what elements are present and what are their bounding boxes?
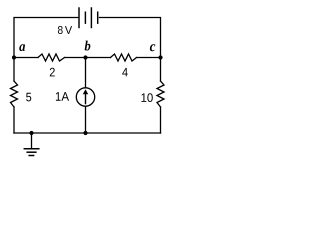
junction dot current source bottom bbox=[83, 131, 87, 135]
label 10 bbox=[141, 93, 152, 102]
current source I1 arrow bbox=[83, 89, 88, 104]
resistor 5ohm left branch bbox=[11, 81, 18, 107]
wire current source to bottom bbox=[85, 106, 87, 133]
battery V1 plate long left bbox=[78, 8, 80, 28]
node c junction dot bbox=[158, 55, 162, 59]
resistor 10ohm right branch bbox=[157, 81, 164, 107]
node b junction dot bbox=[83, 55, 87, 59]
battery V1 plate short bbox=[84, 12, 86, 23]
wire resistor 2 to node b bbox=[65, 57, 111, 59]
node label b bbox=[85, 41, 91, 51]
resistor 4ohm (b-c) bbox=[111, 54, 137, 61]
ground bar 1 bbox=[24, 148, 39, 150]
junction dot ground bbox=[29, 131, 33, 135]
label 8 V glyph V bbox=[65, 26, 72, 34]
battery V1 plate short right bbox=[97, 12, 99, 23]
node label a bbox=[19, 44, 25, 51]
current source I1 circle bbox=[76, 88, 94, 106]
ground stub bbox=[31, 133, 33, 148]
ground bar 3 bbox=[29, 155, 33, 157]
label 2 bbox=[50, 68, 55, 77]
wire node b to current source bbox=[85, 58, 87, 88]
label 8 V glyph 8 bbox=[58, 26, 63, 34]
label 5 bbox=[26, 93, 31, 102]
ground bar 2 bbox=[27, 151, 36, 153]
wire bottom bbox=[14, 132, 161, 134]
label 1 A glyph 1 bbox=[56, 92, 61, 101]
wire node a to resistor 2 bbox=[14, 57, 38, 59]
wire resistor 5 to bottom bbox=[13, 107, 15, 133]
battery V1 plate long right bbox=[90, 8, 92, 28]
wire resistor 4 to node c bbox=[137, 57, 161, 59]
node a junction dot bbox=[12, 55, 16, 59]
label 4 bbox=[122, 68, 128, 77]
wire top-left (corner to battery) bbox=[14, 18, 78, 82]
wire top-right (battery to corner) bbox=[100, 18, 161, 82]
wire resistor 10 to bottom bbox=[160, 107, 162, 133]
node label c bbox=[150, 44, 155, 51]
label 1 A glyph A bbox=[61, 92, 69, 101]
resistor 2ohm (a-b) bbox=[38, 54, 65, 61]
